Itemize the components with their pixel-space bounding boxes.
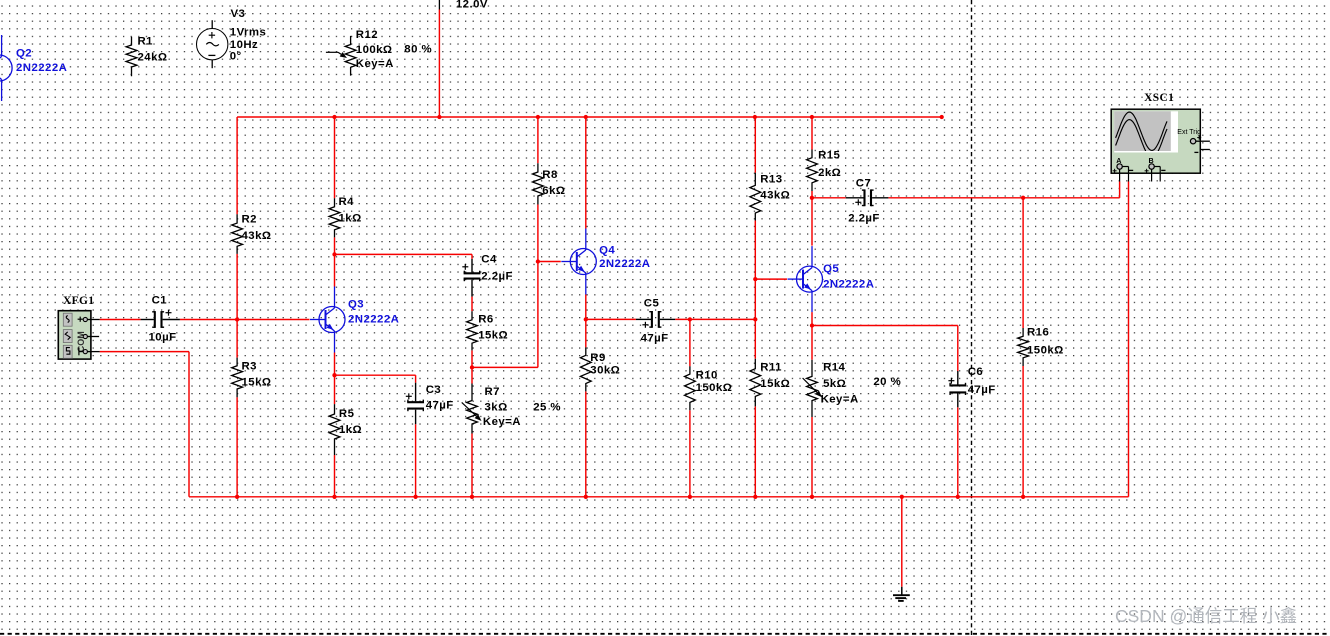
ground bbox=[893, 587, 910, 601]
svg-text:47µF: 47µF bbox=[426, 400, 454, 412]
wire R11 to bottom rail bbox=[754, 406, 756, 497]
svg-text:2N2222A: 2N2222A bbox=[348, 314, 399, 326]
wire R4 top from rail bbox=[334, 117, 336, 198]
wire node to R5 bbox=[334, 375, 336, 404]
svg-text:1Vrms: 1Vrms bbox=[230, 27, 266, 39]
wire junction bbox=[810, 495, 814, 499]
svg-text:C6: C6 bbox=[968, 366, 983, 378]
svg-text:R5: R5 bbox=[339, 408, 355, 420]
svg-text:25 %: 25 % bbox=[533, 402, 561, 414]
svg-text:0°: 0° bbox=[230, 51, 242, 63]
wire C7 line right to scope A bbox=[888, 197, 1119, 199]
svg-text:XFG1: XFG1 bbox=[63, 295, 94, 307]
svg-text:Q5: Q5 bbox=[823, 263, 839, 275]
wire R6 to node bbox=[471, 350, 473, 367]
svg-text:XSC1: XSC1 bbox=[1144, 92, 1174, 104]
wire junction bbox=[900, 495, 904, 499]
capacitor C7 bbox=[846, 178, 889, 225]
svg-text:47µF: 47µF bbox=[968, 384, 996, 396]
wire R8 top from rail bbox=[537, 117, 539, 163]
resistor R9 bbox=[580, 347, 620, 391]
svg-text:15kΩ: 15kΩ bbox=[478, 330, 508, 342]
wire C6 top bbox=[957, 326, 959, 372]
wire junction bbox=[810, 323, 814, 327]
svg-text:20 %: 20 % bbox=[873, 376, 901, 388]
svg-text:R9: R9 bbox=[590, 352, 605, 364]
wire junction bbox=[584, 115, 588, 119]
resistor R16 bbox=[1018, 327, 1064, 367]
resistor R8 bbox=[533, 163, 566, 204]
svg-text:C7: C7 bbox=[856, 178, 871, 190]
wire R2 branch from rail bbox=[236, 117, 238, 214]
wire junction bbox=[956, 495, 960, 499]
wire emitter node to C3 bbox=[335, 374, 416, 376]
resistor R4 bbox=[329, 196, 362, 237]
wire node R6R7 to R8 branch bbox=[472, 366, 538, 368]
svg-text:C5: C5 bbox=[644, 298, 660, 310]
svg-text:12.0V: 12.0V bbox=[456, 0, 488, 11]
wire top power rail bbox=[237, 116, 942, 118]
wire junction bbox=[536, 115, 540, 119]
svg-text:R3: R3 bbox=[242, 361, 257, 373]
wire node to R11 bbox=[754, 319, 756, 358]
svg-text:Key=A: Key=A bbox=[821, 394, 859, 406]
wire C5 line right to R11 branch bbox=[675, 318, 755, 320]
wire R7 to bottom rail bbox=[471, 434, 473, 498]
transistor Q3 bbox=[310, 287, 345, 353]
wire junction bbox=[332, 115, 336, 119]
svg-text:R6: R6 bbox=[478, 314, 493, 326]
wire junction bbox=[584, 495, 588, 499]
svg-text:24kΩ: 24kΩ bbox=[138, 52, 168, 64]
wire R9 top bbox=[585, 319, 587, 347]
wire R15 top from rail bbox=[811, 117, 813, 150]
svg-text:R4: R4 bbox=[339, 196, 355, 208]
svg-text:R1: R1 bbox=[138, 36, 154, 48]
wire C3 corner down bbox=[415, 375, 417, 383]
wire junction bbox=[753, 495, 757, 499]
svg-text:47µF: 47µF bbox=[641, 333, 669, 345]
svg-text:Q3: Q3 bbox=[348, 299, 364, 311]
wire R3 to bottom rail bbox=[236, 397, 238, 497]
wire scope A minus down to rail bbox=[1128, 182, 1130, 497]
svg-text:80 %: 80 % bbox=[404, 44, 432, 56]
wire VCC supply stub black bbox=[438, 0, 440, 10]
wire node to C4 horizontal bbox=[335, 253, 473, 255]
wire to Q5 base bbox=[755, 278, 787, 280]
svg-text:C4: C4 bbox=[481, 254, 497, 266]
transistor Q4 bbox=[561, 229, 596, 295]
resistor R10 bbox=[685, 366, 733, 410]
wire Q4 collector from rail bbox=[585, 117, 587, 229]
resistor R11 bbox=[750, 359, 790, 407]
svg-text:6kΩ: 6kΩ bbox=[542, 185, 565, 197]
svg-text:R7: R7 bbox=[485, 386, 500, 398]
svg-text:2N2222A: 2N2222A bbox=[16, 62, 67, 74]
wire scope A plus down bbox=[1119, 182, 1121, 198]
svg-text:2.2µF: 2.2µF bbox=[481, 271, 513, 283]
svg-text:30kΩ: 30kΩ bbox=[590, 365, 620, 377]
svg-text:R8: R8 bbox=[542, 169, 557, 181]
svg-text:Q4: Q4 bbox=[599, 245, 615, 257]
wire XFG1 plus output bbox=[100, 319, 141, 321]
resistor R6 bbox=[467, 311, 509, 350]
wire R4 to Q3 collector bbox=[334, 237, 336, 286]
wire R14 top bbox=[811, 326, 813, 360]
wire junction bbox=[1021, 495, 1025, 499]
wire junction bbox=[235, 317, 239, 321]
wire to Q4 base bbox=[538, 261, 561, 263]
svg-text:15kΩ: 15kΩ bbox=[760, 378, 790, 390]
capacitor C3 bbox=[406, 383, 454, 425]
svg-text:5kΩ: 5kΩ bbox=[823, 378, 846, 390]
wire C1 to Q3 base bbox=[180, 319, 310, 321]
wire C5 line left bbox=[586, 318, 636, 320]
wire Q3 emitter node vertical bbox=[334, 353, 336, 376]
wire junction bbox=[470, 365, 474, 369]
wire junction bbox=[235, 495, 239, 499]
oscilloscope XSC1 bbox=[1111, 109, 1210, 181]
svg-text:150kΩ: 150kΩ bbox=[696, 382, 733, 394]
wire junction bbox=[753, 317, 757, 321]
resistor R5 bbox=[329, 404, 362, 455]
wire junction bbox=[940, 115, 944, 119]
potentiometer R12 bbox=[326, 29, 432, 76]
svg-text:2.2µF: 2.2µF bbox=[848, 213, 880, 225]
wire bottom ground rail bbox=[189, 496, 1129, 498]
wire R15 to C7 node bbox=[811, 191, 813, 198]
wire junction bbox=[688, 495, 692, 499]
svg-text:3kΩ: 3kΩ bbox=[485, 402, 508, 414]
svg-text:2kΩ: 2kΩ bbox=[818, 167, 841, 179]
svg-text:Key=A: Key=A bbox=[356, 58, 394, 70]
wire R5 to bottom rail bbox=[334, 455, 336, 497]
wire junction bbox=[584, 317, 588, 321]
wire R13 top from rail bbox=[754, 117, 756, 173]
wire R2 to R3 segment bbox=[236, 254, 238, 358]
svg-text:V3: V3 bbox=[231, 8, 246, 20]
svg-text:C1: C1 bbox=[152, 295, 168, 307]
wire junction bbox=[332, 252, 336, 256]
capacitor C4 bbox=[462, 254, 513, 297]
svg-text:Key=A: Key=A bbox=[483, 416, 521, 428]
wire C7 node to Q5 collector bbox=[811, 198, 813, 246]
svg-text:R2: R2 bbox=[242, 214, 257, 226]
wire XFG1 minus down bbox=[188, 352, 190, 497]
function generator XFG1 bbox=[58, 311, 99, 359]
wire junction bbox=[753, 115, 757, 119]
wire R16 top bbox=[1022, 198, 1024, 328]
svg-text:R13: R13 bbox=[760, 174, 782, 186]
wire junction bbox=[413, 495, 417, 499]
svg-text:Q2: Q2 bbox=[16, 48, 32, 60]
svg-text:R12: R12 bbox=[356, 29, 378, 41]
resistor R1 bbox=[126, 36, 167, 77]
wire C3 to bottom rail bbox=[415, 424, 417, 497]
potentiometer R7 bbox=[462, 384, 561, 434]
svg-text:CSDN @通信工程 小鑫: CSDN @通信工程 小鑫 bbox=[1115, 606, 1297, 626]
svg-text:1kΩ: 1kΩ bbox=[339, 424, 362, 436]
wire R13 to Q5 base node bbox=[754, 221, 756, 280]
wire Q5 emitter down bbox=[811, 312, 813, 325]
wire VCC supply vertical bbox=[438, 10, 440, 118]
wire Q4 emitter to C5 line bbox=[585, 295, 587, 320]
wire XFG1 minus output bbox=[100, 351, 189, 353]
svg-text:2N2222A: 2N2222A bbox=[599, 258, 650, 270]
wire R8 vertical lower bbox=[537, 205, 539, 368]
wire R9 to bottom rail bbox=[585, 391, 587, 497]
wire R10 top bbox=[689, 319, 691, 366]
wire ground branch bbox=[901, 497, 903, 587]
wire junction bbox=[332, 373, 336, 377]
wire junction bbox=[536, 259, 540, 263]
svg-text:43kΩ: 43kΩ bbox=[242, 230, 272, 242]
wire C7 line left bbox=[812, 197, 846, 199]
transistor Q2 bbox=[0, 35, 12, 101]
svg-text:1kΩ: 1kΩ bbox=[339, 213, 362, 225]
page border dashed vertical bbox=[971, 0, 973, 636]
capacitor C5 bbox=[636, 298, 675, 345]
wire junction bbox=[332, 495, 336, 499]
svg-text:Ext Trig: Ext Trig bbox=[1177, 129, 1201, 136]
potentiometer R14 bbox=[803, 360, 902, 417]
svg-text:R15: R15 bbox=[818, 150, 840, 162]
wire R14 to bottom rail bbox=[811, 417, 813, 497]
wire junction bbox=[810, 196, 814, 200]
wire C4 to R6 bbox=[471, 297, 473, 312]
wire junction bbox=[470, 495, 474, 499]
wire junction bbox=[1021, 196, 1025, 200]
svg-text:10Hz: 10Hz bbox=[230, 39, 258, 51]
capacitor C6 bbox=[948, 366, 995, 407]
svg-text:R14: R14 bbox=[823, 362, 845, 374]
svg-text:43kΩ: 43kΩ bbox=[760, 190, 790, 202]
ac source V3 bbox=[197, 8, 267, 68]
svg-text:2N2222A: 2N2222A bbox=[823, 279, 874, 291]
svg-text:R11: R11 bbox=[760, 362, 782, 374]
svg-text:100kΩ: 100kΩ bbox=[356, 44, 393, 56]
wire R10 to bottom rail bbox=[689, 410, 691, 497]
wire C4 corner down bbox=[471, 254, 473, 259]
wire junction bbox=[437, 115, 441, 119]
capacitor C1 bbox=[141, 295, 180, 344]
svg-text:C3: C3 bbox=[426, 384, 441, 396]
resistor R13 bbox=[750, 173, 790, 221]
svg-text:10µF: 10µF bbox=[149, 332, 177, 344]
resistor R15 bbox=[807, 150, 842, 192]
svg-text:15kΩ: 15kΩ bbox=[242, 377, 272, 389]
wire C6 to bottom rail bbox=[957, 407, 959, 497]
wire base node down to C5 line node bbox=[754, 279, 756, 319]
wire junction bbox=[810, 115, 814, 119]
resistor R3 bbox=[232, 358, 272, 398]
wire R16 to bottom rail bbox=[1022, 366, 1024, 497]
svg-text:R16: R16 bbox=[1027, 327, 1049, 339]
wire Q5 emitter line to C6 bbox=[812, 325, 958, 327]
transistor Q5 bbox=[788, 246, 823, 312]
resistor R2 bbox=[232, 214, 272, 254]
wire junction bbox=[753, 277, 757, 281]
wire junction bbox=[688, 317, 692, 321]
svg-text:150kΩ: 150kΩ bbox=[1027, 345, 1064, 357]
page border dashed horizontal bottom bbox=[0, 633, 1330, 635]
svg-text:R10: R10 bbox=[696, 370, 718, 382]
wire node to R7 bbox=[471, 367, 473, 383]
